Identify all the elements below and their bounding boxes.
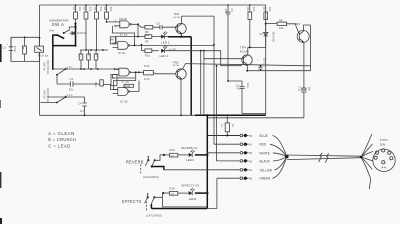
svg-text:TR3: TR3 [294, 22, 300, 26]
svg-text:R9: R9 [145, 39, 149, 43]
svg-text:BLUE: BLUE [260, 134, 269, 138]
svg-text:10k: 10k [78, 7, 82, 12]
pin 3 [240, 152, 243, 155]
svg-text:R2: R2 [72, 7, 76, 11]
switch SW1a [53, 68, 119, 70]
LED4 [178, 192, 188, 194]
svg-text:1N4148: 1N4148 [77, 31, 87, 35]
bold ground drop [206, 116, 208, 209]
svg-text:C8 10u: C8 10u [263, 58, 267, 67]
pin 1 [240, 134, 243, 137]
nand gate IC1a [120, 21, 129, 28]
TR2 collector wire to relay line [183, 64, 311, 69]
svg-text:(LATCHING): (LATCHING) [143, 175, 159, 179]
svg-text:a b c: a b c [67, 93, 74, 97]
row WHITE [207, 152, 240, 154]
svg-text:41: 41 [249, 143, 253, 147]
transistor TR4 [242, 55, 252, 65]
svg-text:LED 2: LED 2 [160, 54, 169, 58]
box component mid [100, 80, 104, 86]
label box IC1b [110, 37, 116, 44]
effects bold jog [151, 204, 207, 209]
svg-text:(IN POS A): (IN POS A) [46, 60, 50, 74]
svg-text:1n0: 1n0 [95, 53, 99, 58]
resistor R17 [225, 123, 229, 132]
fan to plug [361, 134, 372, 157]
svg-text:(IN POS A): (IN POS A) [46, 88, 50, 102]
svg-text:45: 45 [249, 151, 253, 155]
svg-text:4011B: 4011B [119, 17, 127, 21]
row RED [214, 143, 240, 145]
svg-text:10k: 10k [99, 7, 103, 12]
TR1 collector wire [182, 16, 214, 144]
svg-text:10k: 10k [109, 7, 113, 12]
transistor TR3 [297, 30, 309, 42]
scan edge artifacts [0, 44, 2, 62]
capacitor C3 row [57, 81, 100, 87]
resistor R5 [105, 12, 109, 19]
wire IC1a input from R5 [107, 21, 115, 23]
input jack wire top [11, 37, 40, 61]
svg-text:10k: 10k [268, 7, 272, 12]
switch SW A [56, 34, 58, 36]
svg-text:WHITE: WHITE [260, 151, 271, 155]
cable break [319, 153, 329, 163]
fan to cable [273, 136, 287, 157]
resistor R8 [145, 25, 153, 29]
nand gate IC2b [118, 88, 128, 96]
transistor TR2 [176, 69, 186, 79]
wire TR4 collector [248, 47, 266, 55]
svg-text:R10: R10 [145, 54, 151, 58]
mid rail [80, 49, 108, 51]
svg-text:R3: R3 [82, 7, 86, 11]
resistor R3 [84, 12, 88, 19]
switch SW1b [48, 96, 85, 98]
emitter bold bus [168, 37, 191, 116]
svg-text:EFFECTS: EFFECTS [122, 199, 142, 204]
LED2 [161, 49, 164, 53]
svg-text:C6: C6 [156, 22, 160, 26]
svg-text:RLA 1a: RLA 1a [38, 54, 48, 58]
svg-text:REVERB ON: REVERB ON [181, 146, 197, 150]
resistor R4 [95, 12, 99, 19]
svg-text:C1: C1 [2, 46, 6, 50]
LED2 wire to TR4 area [165, 51, 242, 66]
6 pin DIN plug [373, 149, 395, 171]
svg-text:45: 45 [249, 177, 253, 181]
svg-text:10n: 10n [308, 86, 312, 91]
LED1 [159, 36, 168, 38]
bold wiring of SW A [53, 23, 76, 69]
svg-text:470n: 470n [13, 46, 17, 53]
node dots input [24, 36, 26, 38]
switch effects [147, 196, 149, 198]
svg-text:R7: R7 [262, 7, 266, 11]
row GREEN [217, 177, 240, 179]
svg-text:46: 46 [249, 159, 253, 163]
resistor R7 on edge [264, 12, 268, 19]
svg-text:REVERB: REVERB [126, 159, 144, 164]
main board outline box [40, 5, 266, 115]
capacitor C8 [258, 66, 262, 71]
svg-text:LED 1: LED 1 [161, 40, 170, 44]
svg-text:YELLOW: YELLOW [260, 168, 273, 172]
svg-text:2n2: 2n2 [77, 53, 81, 58]
svg-text:10k: 10k [279, 26, 284, 30]
svg-text:a b c: a b c [67, 65, 74, 69]
resistor R2 [74, 12, 78, 19]
svg-text:1N4148: 1N4148 [272, 32, 276, 42]
svg-text:GREEN: GREEN [260, 177, 271, 181]
svg-text:C7: C7 [230, 9, 234, 13]
svg-text:R13: R13 [246, 7, 250, 13]
svg-text:R12: R12 [144, 64, 150, 68]
yellow feed bold jog [151, 165, 153, 167]
pin group [240, 134, 252, 181]
svg-text:10n: 10n [69, 87, 74, 91]
svg-text:TR2: TR2 [173, 60, 179, 64]
svg-text:LED4: LED4 [189, 197, 197, 201]
svg-text:DIN: DIN [380, 142, 385, 146]
switch reverb [147, 159, 149, 161]
resistor R1 [23, 46, 27, 54]
row BLUE [207, 135, 240, 137]
svg-text:IC 1b: IC 1b [118, 51, 126, 55]
svg-text:10k: 10k [88, 7, 92, 12]
svg-text:IC 2b: IC 2b [120, 100, 128, 104]
svg-text:4011: 4011 [125, 84, 131, 88]
trimmer box [111, 75, 117, 86]
mid verticals [201, 51, 204, 116]
label box IC2b [124, 84, 133, 87]
capacitor C1 [9, 37, 13, 61]
svg-text:R6: R6 [279, 18, 283, 22]
svg-text:A = CLEAN: A = CLEAN [48, 131, 75, 136]
svg-text:C = LEAD: C = LEAD [48, 143, 71, 148]
pin 5 [240, 169, 243, 172]
nand gate IC1b [118, 42, 128, 50]
nand gate IC2a [119, 68, 129, 76]
capacitor C7 [226, 5, 230, 81]
svg-text:BC548: BC548 [240, 49, 249, 53]
svg-text:C4: C4 [78, 102, 82, 106]
svg-text:BLACK: BLACK [260, 159, 271, 163]
resistor R16 [170, 192, 178, 196]
bottom edge (bold right part) [40, 114, 197, 116]
svg-text:BC184: BC184 [174, 17, 181, 19]
LED3 [178, 154, 188, 156]
svg-text:R4: R4 [93, 7, 97, 11]
row YELLOW [164, 169, 240, 171]
capacitor C2 [79, 54, 83, 60]
resistor R12 [144, 71, 154, 75]
pin 6 [240, 177, 243, 180]
svg-text:EFFECTS ON: EFFECTS ON [182, 184, 200, 188]
svg-text:1M: 1M [21, 45, 25, 50]
svg-text:B = CRUNCH: B = CRUNCH [48, 137, 76, 142]
svg-text:10n: 10n [224, 9, 228, 14]
capacitor C11 [301, 90, 307, 96]
capacitor C6 series [160, 25, 162, 29]
resistor R15 [170, 153, 178, 157]
diode D2 [264, 24, 268, 48]
svg-text:(LATCHING): (LATCHING) [146, 213, 162, 217]
wire to R6 [266, 23, 277, 25]
cable pair [287, 155, 361, 160]
svg-text:SW 1a: SW 1a [43, 62, 47, 71]
svg-text:L1: L1 [220, 124, 224, 128]
svg-text:1n5: 1n5 [80, 109, 85, 113]
resistor R11a [94, 54, 98, 60]
svg-text:4b: 4b [111, 38, 115, 42]
TR2 emitter down [180, 79, 182, 116]
svg-text:RED: RED [260, 143, 267, 147]
TR3 collector loop [304, 25, 311, 71]
svg-text:C11: C11 [298, 86, 302, 91]
capacitor C4 [82, 97, 87, 115]
TR3 emitter line [208, 42, 304, 117]
resistor R10 [145, 49, 152, 53]
diode D1 [70, 32, 77, 35]
svg-text:BC184: BC184 [173, 65, 180, 67]
relay/emitter rail [246, 70, 310, 72]
svg-text:R16: R16 [170, 186, 176, 190]
svg-text:SW 1b: SW 1b [43, 90, 47, 99]
resistor R13 [248, 12, 252, 19]
svg-text:45: 45 [249, 134, 253, 138]
capacitor C10 [228, 81, 266, 114]
svg-text:C5: C5 [87, 53, 91, 57]
row BLACK [217, 66, 240, 161]
latch2 cross wires [113, 72, 140, 91]
pin 4 [240, 160, 243, 163]
svg-text:44: 44 [249, 168, 253, 172]
svg-text:R11: R11 [94, 82, 98, 87]
svg-text:SW A: SW A [52, 22, 65, 27]
svg-text:S=b:: S=b: [49, 28, 55, 32]
relay contact RLA1a [35, 46, 44, 52]
svg-text:R13: R13 [144, 77, 150, 81]
resistor R9 [145, 35, 152, 39]
resistor R6 [277, 22, 287, 25]
svg-text:10k: 10k [252, 7, 256, 12]
latch cross wires [113, 24, 139, 45]
pin 2 [240, 143, 243, 146]
svg-text:D2: D2 [259, 32, 263, 36]
svg-text:LED3: LED3 [186, 158, 194, 162]
svg-text:C3: C3 [70, 77, 74, 81]
svg-text:10u: 10u [246, 83, 250, 88]
transistor TR1 [176, 23, 186, 33]
svg-text:R5: R5 [103, 7, 107, 11]
TR4 base wire [204, 58, 244, 60]
svg-text:TR1: TR1 [174, 12, 180, 16]
svg-text:R15: R15 [170, 148, 176, 152]
wire green riser [207, 178, 217, 208]
capacitor C5 [87, 54, 91, 60]
